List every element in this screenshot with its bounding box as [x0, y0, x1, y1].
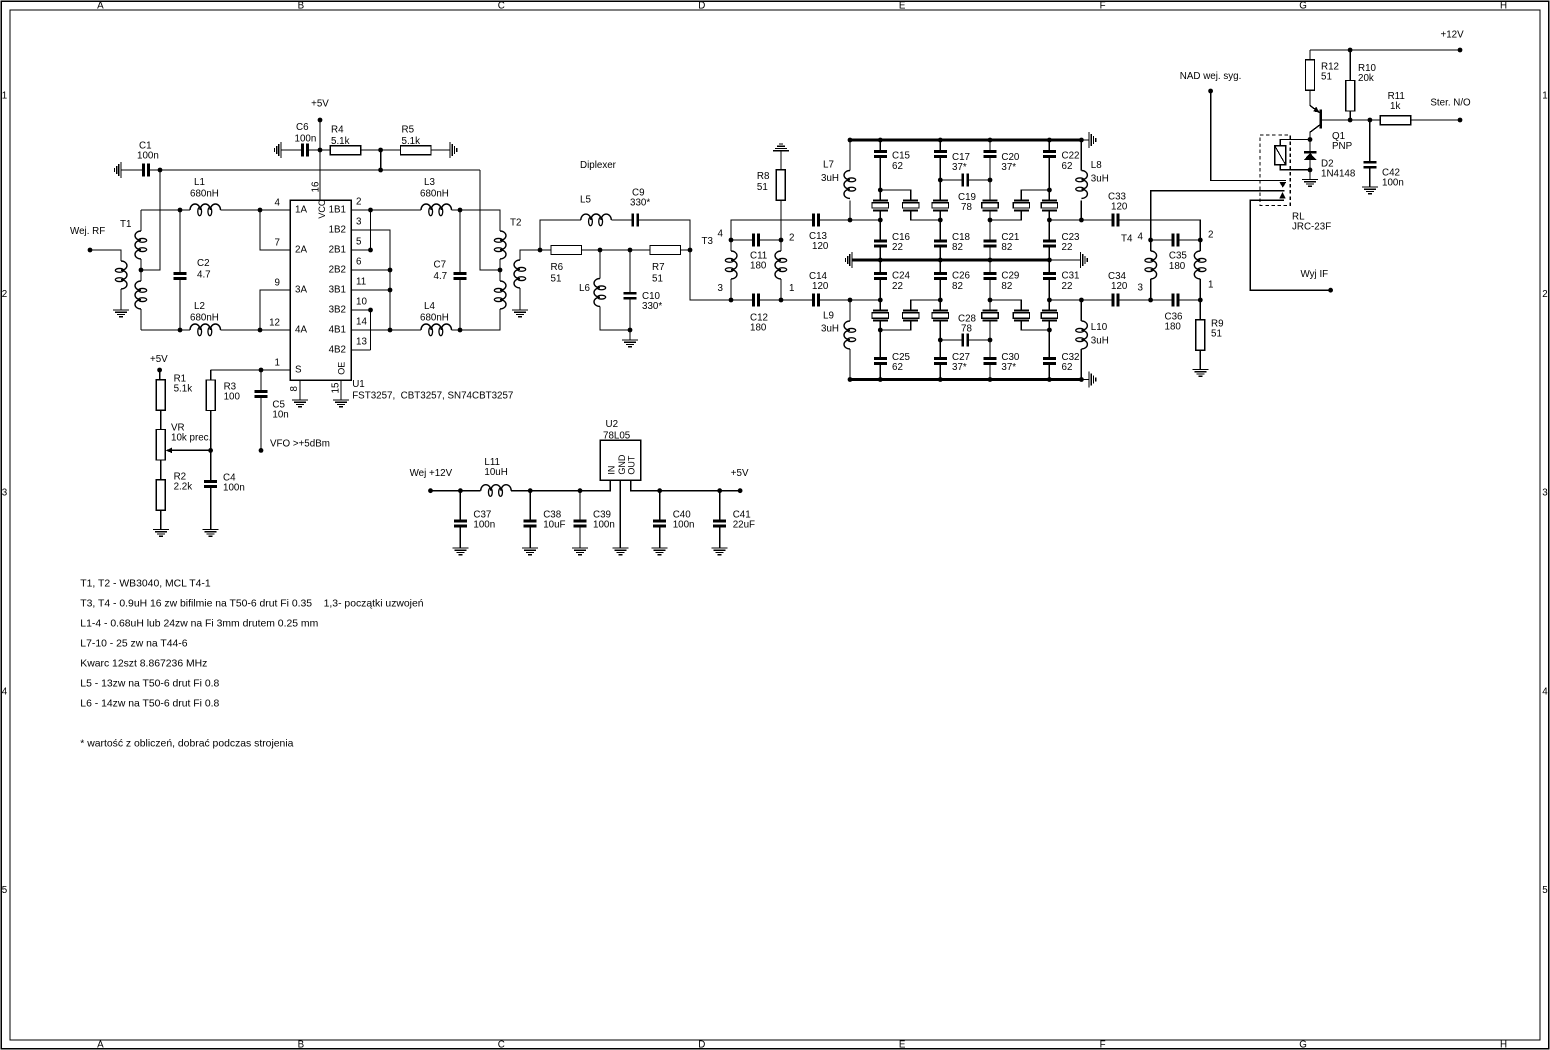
svg-text:4: 4: [275, 198, 281, 209]
wire L5 to C9: [611, 219, 631, 221]
svg-text:+5V: +5V: [731, 468, 749, 479]
transistor Q1 base bar: [1319, 110, 1322, 129]
svg-text:Wej. RF: Wej. RF: [70, 226, 105, 237]
wire C21 upper lead: [989, 220, 991, 240]
wire C20 upper lead: [989, 140, 991, 150]
crystal X4 top lead: [989, 180, 991, 200]
wire L4 to node D: [452, 329, 461, 331]
svg-text:180: 180: [1165, 322, 1182, 333]
wire C18 lower lead: [939, 247, 941, 260]
svg-text:2.2k: 2.2k: [174, 482, 193, 493]
capacitor C5: [255, 390, 268, 393]
wire OUT to +5V rail: [631, 480, 740, 491]
wire R5 to gnd: [431, 149, 450, 151]
svg-text:100n: 100n: [223, 483, 245, 494]
svg-text:F: F: [1100, 0, 1106, 11]
svg-text:L6 - 14zw na T50-6 drut Fi 0.8: L6 - 14zw na T50-6 drut Fi 0.8: [80, 699, 219, 710]
crystal X6 top lead: [1048, 190, 1050, 200]
wire filter to C33: [1081, 219, 1111, 221]
crystal X11 top lead: [990, 300, 1021, 311]
wire pin3 to C12: [731, 299, 752, 301]
svg-text:L7: L7: [823, 160, 834, 171]
svg-text:R7: R7: [652, 262, 665, 273]
capacitor C17: [934, 150, 947, 153]
junction L7 top: [848, 138, 853, 143]
transformer T4 right winding: [1194, 251, 1200, 279]
svg-text:JRC-23F: JRC-23F: [1292, 222, 1331, 233]
wire pin 3B1: [351, 289, 390, 291]
wire pin 1B1: [351, 209, 371, 211]
junction node N3: [988, 218, 993, 223]
capacitor C38: [524, 520, 537, 523]
inductor L1: [190, 204, 221, 210]
wire L10 top lead: [1080, 300, 1082, 321]
wire pin 4B1: [351, 329, 390, 331]
junction T3 pin3: [729, 298, 734, 303]
junction C1/LO line: [158, 168, 163, 173]
wire T2 secondary top: [520, 250, 540, 260]
wire C42 bottom: [1369, 168, 1371, 187]
wire C17 upper lead: [939, 140, 941, 150]
wire C17 lower lead: [939, 158, 941, 180]
svg-text:L1: L1: [194, 177, 205, 188]
svg-text:10uH: 10uH: [484, 467, 507, 478]
svg-text:1: 1: [1208, 280, 1213, 291]
wire C40 top: [659, 491, 661, 520]
crystal X12 top lead: [1048, 300, 1050, 311]
transformer T3 right winding: [775, 251, 781, 279]
svg-text:5: 5: [356, 237, 362, 248]
junction on S-line: [378, 168, 383, 173]
svg-text:14: 14: [356, 317, 367, 328]
capacitor C30: [984, 357, 997, 360]
svg-text:1: 1: [275, 358, 280, 369]
wire C15 upper lead: [879, 140, 881, 150]
capacitor C13: [812, 214, 815, 227]
svg-text:5.1k: 5.1k: [174, 384, 193, 395]
wire LO drop to T1 tap: [141, 170, 160, 270]
junction L9 top: [848, 298, 853, 303]
top ground bus (thick): [848, 139, 1083, 142]
resistor R4: [330, 146, 361, 155]
wire C31 lower lead: [1048, 280, 1050, 300]
junction col E mid bus: [1047, 258, 1052, 263]
wire gnd to C6: [281, 149, 301, 151]
junction +5V/C6/R4: [318, 148, 323, 153]
wire T1 sec bottom lead: [140, 309, 142, 330]
svg-text:L4: L4: [424, 301, 435, 312]
crystal X6 bottom lead: [1048, 210, 1050, 220]
svg-text:2: 2: [1208, 230, 1213, 241]
ground at C40: [652, 547, 668, 549]
junction diplexer input: [538, 248, 543, 253]
svg-text:4: 4: [1138, 231, 1144, 242]
junction node N2t: [938, 178, 943, 183]
wire pin 8 to gnd: [299, 380, 301, 400]
wire to R11: [1370, 119, 1380, 121]
wire L7 top lead: [849, 140, 851, 171]
svg-text:B: B: [298, 1040, 305, 1050]
junction col C mid bus: [938, 258, 943, 263]
wire T1 to node A: [141, 209, 180, 211]
svg-text:62: 62: [892, 362, 903, 373]
ground mid bus left: [851, 252, 853, 268]
wire D2 top: [1309, 140, 1311, 153]
svg-text:82: 82: [952, 242, 963, 253]
svg-text:16: 16: [311, 181, 322, 192]
wire C30 lower lead: [989, 365, 991, 380]
svg-text:5.1k: 5.1k: [402, 136, 421, 147]
svg-text:H: H: [1500, 0, 1507, 11]
wire 3B2-4B2 tie: [370, 310, 372, 350]
wire L3 to node C: [452, 209, 461, 211]
op-amp U1 box: [290, 200, 351, 380]
resistor R5: [400, 146, 431, 155]
svg-text:120: 120: [1111, 201, 1128, 212]
wire T3 left top: [730, 240, 732, 251]
ground at C10: [622, 339, 638, 341]
svg-text:11: 11: [356, 277, 366, 288]
wire T2 primary middle: [499, 259, 501, 281]
wire C21 lower lead: [989, 247, 991, 260]
svg-text:L6: L6: [579, 283, 590, 294]
capacitor C9: [631, 214, 634, 227]
wire C34 to T4 pin3: [1119, 299, 1150, 301]
junction col B mid bus: [878, 258, 883, 263]
svg-text:2: 2: [356, 197, 361, 208]
wire T4 pin4 to relay: [1151, 191, 1285, 240]
ground at C38: [522, 547, 538, 549]
svg-text:120: 120: [1111, 281, 1128, 292]
capacitor C32: [1043, 357, 1056, 360]
capacitor C22: [1043, 150, 1056, 153]
capacitor C23: [1043, 240, 1056, 243]
svg-text:FST3257, CBT3257, SN74CBT3257: FST3257, CBT3257, SN74CBT3257: [352, 391, 513, 402]
wire bottom bus to gnd: [1083, 379, 1089, 381]
wire 4B1 to L4: [390, 329, 421, 331]
svg-text:E: E: [899, 0, 906, 11]
junction R10 top: [1348, 48, 1353, 53]
capacitor C34: [1112, 294, 1115, 307]
svg-text:78L05: 78L05: [603, 430, 631, 441]
junction filter output upper: [1079, 218, 1084, 223]
capacitor C33: [1112, 214, 1115, 227]
junction 1A node: [258, 208, 263, 213]
node D junction: [458, 328, 463, 333]
svg-text:4: 4: [718, 229, 724, 240]
terminal Ster. N/O: [1458, 118, 1463, 123]
junction L8 top: [1079, 138, 1084, 143]
wire +12V input rail: [431, 490, 481, 492]
svg-text:R4: R4: [331, 125, 344, 136]
wire L6 top: [599, 250, 601, 279]
wire C19 left lead: [940, 179, 961, 181]
svg-text:1k: 1k: [1390, 101, 1400, 112]
svg-text:L9: L9: [823, 310, 834, 321]
transformer T1 secondary winding upper: [135, 231, 141, 259]
svg-text:78: 78: [961, 324, 972, 335]
potentiometer VR: [156, 430, 165, 461]
svg-text:3uH: 3uH: [1091, 335, 1109, 346]
svg-text:9: 9: [275, 278, 280, 289]
svg-text:22: 22: [892, 242, 903, 253]
svg-text:+5V: +5V: [311, 99, 329, 110]
svg-text:82: 82: [952, 281, 963, 292]
wire C10 upper: [629, 250, 631, 292]
wire C37 bottom: [459, 527, 461, 548]
transistor Q1 base lead: [1322, 119, 1350, 121]
wire C16 lower lead: [879, 247, 881, 260]
svg-text:3: 3: [718, 283, 724, 294]
svg-text:T2: T2: [510, 218, 521, 229]
ground top bus right: [1088, 132, 1090, 148]
crystal X6: [1042, 199, 1057, 201]
ground at C41: [712, 547, 728, 549]
resistor R2: [156, 480, 165, 511]
junction R11/C42: [1368, 118, 1373, 123]
capacitor C41: [713, 520, 726, 523]
junction T4 pin1: [1198, 298, 1203, 303]
mid ground bus (thick): [852, 259, 1049, 262]
ground at U2: [612, 547, 628, 549]
svg-text:R5: R5: [402, 125, 415, 136]
junction node M4: [1047, 298, 1052, 303]
wire node to R4: [320, 149, 330, 151]
svg-text:51: 51: [1321, 71, 1332, 82]
wire R9 to gnd: [1199, 350, 1201, 369]
wire pin 4B2: [351, 349, 371, 351]
wire VR to R2: [160, 460, 162, 480]
junction C10 bottom: [628, 328, 633, 333]
crystal X7: [873, 310, 888, 312]
node B junction: [178, 328, 183, 333]
voltage regulator U2 box: [600, 440, 641, 480]
ground at C1: [120, 162, 122, 178]
capacitor C12: [752, 294, 755, 307]
ground at C4: [203, 529, 219, 531]
crystal X12 bottom lead: [1048, 321, 1050, 331]
junction col D top bus: [988, 138, 993, 143]
ground at pin 8: [292, 399, 308, 401]
junction L9 bottom: [848, 377, 853, 382]
terminal +12V: [1458, 48, 1463, 53]
junction 3B1: [388, 288, 393, 293]
svg-text:T3, T4 - 0.9uH 16 zw bifilmie: T3, T4 - 0.9uH 16 zw bifilmie na T50-6 d…: [80, 599, 423, 610]
wire NAD to relay contact: [1211, 91, 1286, 181]
wire L2 to 4A node: [221, 329, 261, 331]
wire C6 to node: [309, 149, 320, 151]
svg-text:3: 3: [1542, 488, 1548, 499]
junction node N1t: [878, 188, 883, 193]
wire base node to C42 node: [1350, 119, 1370, 121]
capacitor C36: [1172, 294, 1175, 307]
capacitor C31: [1043, 272, 1056, 275]
svg-text:L5 - 13zw na T50-6 drut Fi 0.8: L5 - 13zw na T50-6 drut Fi 0.8: [80, 679, 219, 690]
transformer T2 primary winding upper: [500, 231, 506, 259]
wire L1 to 1A node: [221, 209, 261, 211]
svg-text:3B1: 3B1: [329, 284, 346, 295]
crystal X9: [933, 310, 948, 312]
junction node N3t: [988, 178, 993, 183]
transistor Q1 collector lead: [1310, 125, 1320, 140]
capacitor C19: [961, 174, 964, 187]
transistor Q1 emitter lead: [1310, 91, 1320, 113]
junction 3B2: [368, 308, 373, 313]
wire C26 lower lead: [939, 280, 941, 300]
wire C41 top: [719, 491, 721, 520]
wire T3 right bottom: [780, 279, 782, 300]
svg-text:7: 7: [275, 238, 280, 249]
wire T4 left top: [1150, 240, 1152, 251]
wire Wej.RF to T1 primary: [90, 250, 121, 261]
ground at R9: [1192, 369, 1208, 371]
junction col E top bus: [1047, 138, 1052, 143]
potentiometer VR wiper arrow: [166, 448, 172, 454]
wire filter to C34: [1081, 299, 1111, 301]
wire input to R6: [540, 249, 551, 251]
svg-text:13: 13: [356, 337, 367, 348]
ground at T1 primary: [113, 309, 129, 311]
svg-text:100n: 100n: [137, 151, 159, 162]
junction col D mid bus: [988, 258, 993, 263]
svg-text:S: S: [295, 364, 302, 375]
svg-text:51: 51: [652, 273, 663, 284]
ground bottom bus right: [1088, 372, 1090, 388]
svg-text:4: 4: [1542, 686, 1548, 697]
wire node to R7: [630, 249, 650, 251]
wire L11 to IN: [511, 480, 610, 491]
wire C4 top: [210, 450, 212, 480]
svg-text:E: E: [899, 1040, 906, 1050]
wire LO line: [160, 169, 480, 171]
svg-text:U2: U2: [606, 419, 619, 430]
junction L10 bottom: [1079, 377, 1084, 382]
wire C12 to pin1: [760, 299, 781, 301]
junction base/R10: [1348, 118, 1353, 123]
wire C15 lower lead: [879, 158, 881, 190]
crystal X1 bottom lead: [879, 210, 881, 220]
wire C33 to T4 pin2: [1119, 220, 1200, 240]
wire R3 to wiper node: [210, 411, 212, 451]
resistor R8: [776, 170, 785, 201]
terminal +5V bias: [157, 368, 162, 373]
capacitor C1: [142, 164, 145, 177]
transformer T4 left winding: [1151, 251, 1157, 279]
inductor L11: [481, 485, 512, 491]
wire 1B1-2B1 tie: [370, 210, 372, 250]
svg-text:3uH: 3uH: [821, 173, 839, 184]
capacitor C37: [454, 520, 467, 523]
ground at D2: [1302, 179, 1318, 181]
capacitor C40: [653, 520, 666, 523]
wire R1 to VR: [160, 410, 162, 430]
svg-text:L3: L3: [424, 177, 435, 188]
inductor L2: [190, 324, 221, 330]
relay RL dashed box: [1260, 135, 1290, 205]
wire C19 right lead: [969, 179, 990, 181]
wire C5 top: [260, 370, 262, 390]
wire pin3 to C36: [1151, 299, 1172, 301]
svg-text:4: 4: [2, 686, 8, 697]
wire L9 top lead: [849, 300, 851, 321]
junction C40 top: [657, 488, 662, 493]
wire R12 top: [1309, 50, 1311, 60]
wire C38 bottom: [529, 527, 531, 548]
svg-text:120: 120: [812, 241, 829, 252]
svg-text:OE: OE: [336, 362, 346, 375]
svg-text:5.1k: 5.1k: [331, 136, 350, 147]
wire pin1 to R9: [1199, 300, 1201, 320]
wire L8 top lead: [1080, 140, 1082, 171]
svg-text:22: 22: [1062, 281, 1073, 292]
svg-text:330*: 330*: [630, 198, 650, 209]
capacitor C7: [454, 272, 467, 275]
relay RL coil: [1275, 146, 1286, 165]
wire T1 primary to gnd: [120, 289, 122, 310]
wire C35 to pin2: [1179, 239, 1200, 241]
wire C16 upper lead: [879, 220, 881, 240]
crystal X11 bottom lead: [1021, 321, 1049, 331]
svg-text:3uH: 3uH: [1091, 173, 1109, 184]
wire C27 upper lead: [939, 340, 941, 357]
wire D2 node to gnd: [1309, 170, 1311, 180]
svg-text:L7-10 - 25 zw na T44-6: L7-10 - 25 zw na T44-6: [80, 639, 187, 650]
svg-text:U1: U1: [352, 379, 365, 390]
crystal X5 bottom lead: [990, 210, 1021, 220]
resistor R3: [206, 380, 215, 411]
wire mid bus to right gnd: [1049, 259, 1080, 261]
wire C25 upper lead: [879, 330, 881, 357]
svg-text:100n: 100n: [1382, 178, 1404, 189]
junction node M3b: [988, 338, 993, 343]
ground at C6: [280, 142, 282, 158]
junction node M2: [938, 298, 943, 303]
svg-text:680nH: 680nH: [420, 189, 449, 200]
svg-text:37*: 37*: [952, 362, 967, 373]
wire T1 sec middle: [140, 259, 142, 281]
node C junction: [458, 208, 463, 213]
svg-text:22: 22: [892, 281, 903, 292]
svg-text:1N4148: 1N4148: [1321, 169, 1356, 180]
capacitor C14: [812, 294, 815, 307]
capacitor C15: [874, 150, 887, 153]
svg-text:NAD wej. syg.: NAD wej. syg.: [1180, 71, 1242, 82]
inductor L9: [844, 321, 850, 349]
wire relay coil bottom: [1280, 165, 1310, 170]
crystal X2 bottom lead: [911, 210, 941, 220]
svg-text:4.7: 4.7: [197, 270, 211, 281]
svg-text:VFO >+5dBm: VFO >+5dBm: [270, 439, 330, 450]
capacitor C21: [984, 240, 997, 243]
svg-text:6: 6: [356, 257, 362, 268]
junction node N2: [938, 218, 943, 223]
terminal Wej. RF: [88, 248, 93, 253]
svg-text:5: 5: [1542, 885, 1548, 896]
wire relay common to Wyj IF: [1250, 200, 1331, 290]
svg-text:4B1: 4B1: [329, 324, 346, 335]
terminal NAD input: [1208, 89, 1213, 94]
svg-text:R8: R8: [757, 171, 770, 182]
wire C32 lower lead: [1048, 365, 1050, 380]
wire filter input to col B: [850, 219, 880, 221]
wire node to C10 node: [600, 249, 630, 251]
wire C10 gnd stem: [629, 330, 631, 340]
junction col B bottom bus: [878, 377, 883, 382]
svg-text:1: 1: [789, 283, 794, 294]
wire L7 bottom lead: [849, 201, 851, 221]
resistor R9: [1196, 320, 1205, 351]
transformer T3 left winding: [731, 251, 737, 279]
